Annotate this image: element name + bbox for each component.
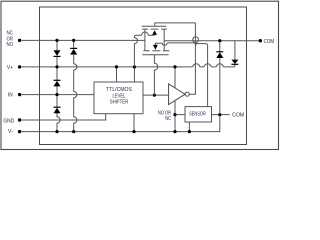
junction dot V+ / inverter supply	[173, 65, 176, 68]
right stub Q1 down to lower channel	[163, 29, 165, 50]
wire: V+ rail hop over sensor vertical x207.6	[204, 64, 211, 67]
wire col A: diode3 down, hop over GND, to V-	[57, 113, 60, 132]
junction dot shifter V- on V- rail	[132, 130, 135, 133]
wire: GND rail from pin, corner up into level shifter bottom	[22, 114, 106, 120]
wire: V- rail from pin, corner up at right to sensor-COM node	[22, 115, 220, 132]
junction dot col B on NO rail	[72, 39, 75, 42]
svg-text:IN: IN	[8, 93, 13, 99]
junction dot V+/shifter left supply	[115, 65, 118, 68]
junction dot sensor/COM/column C node	[218, 113, 221, 116]
wire col A: diode2 anode to IN rail	[56, 86, 58, 94]
junction dot sensor bottom on V- rail	[188, 130, 191, 133]
wire: V+ rail	[22, 66, 235, 68]
wire: N-gate vertical from lower MOSFET gate down to shifter output, hop over V+ rail	[154, 55, 157, 95]
pin dot IN	[18, 93, 21, 96]
inverter output bubble	[185, 92, 189, 96]
transistor Q2 lower MOSFET (N-channel)	[142, 43, 196, 55]
TTL/CMOS level shifter box U1	[94, 82, 143, 114]
op-amp U2 inverter body redrawn over supply line	[169, 84, 185, 105]
wire col A: IN to diode3	[56, 95, 58, 107]
pin dot GND	[18, 118, 21, 121]
svg-text:LEVEL: LEVEL	[113, 93, 126, 99]
column D: COM to V+ clamp diode at x234.9	[234, 41, 236, 67]
op-amp U2 inverter	[169, 84, 185, 105]
wire col C: diode anode down to sensor node (V+ rail hops over)	[219, 58, 221, 115]
crossover circle at COM rail / drive vertical	[193, 37, 199, 43]
diode D6 col D (anode COM, cathode V+)	[231, 60, 238, 64]
wire: V+ rail hop over gate vertical x196.3	[193, 64, 200, 67]
wire: COM rail from right stub T to COM pin	[164, 40, 259, 42]
junction dot col A on IN rail	[55, 93, 58, 96]
channel segments Q2	[143, 50, 169, 52]
gate bar Q1	[142, 25, 167, 27]
diode D2 col A (cathode V+, anode IN)	[54, 79, 61, 81]
wire col D: COM rail down to diode anode	[234, 41, 236, 60]
column A: ESD diode stack at x57	[57, 40, 60, 131]
wire: level shifter output to inverter input	[143, 94, 169, 96]
wire: V- supply from level shifter bottom to V- rail	[133, 114, 135, 132]
substrate wire Q2: from arrow base up, right, dip under right stub, to gate vertical	[155, 43, 196, 46]
pin dot COM (top right)	[259, 39, 262, 42]
wire col D: diode cathode to V+ rail end	[234, 65, 236, 67]
substrate wire hop over left stub	[142, 32, 148, 35]
IC boundary box	[40, 7, 247, 145]
wire: branch to sensor: right at y43.6 then down to sensor top	[195, 44, 207, 107]
svg-text:GND: GND	[3, 118, 14, 124]
svg-text:NC: NC	[165, 116, 171, 122]
wire: V+ rail hop over column C x219.8	[216, 64, 223, 67]
junction dot col A on NO rail	[55, 39, 58, 42]
svg-text:COM: COM	[264, 39, 275, 45]
wire col A: V+ to diode2 top	[56, 67, 58, 80]
wire: sensor left to inverter supply node	[175, 114, 185, 116]
junction dot shifter output	[153, 94, 156, 97]
svg-text:SHIFTER: SHIFTER	[110, 100, 128, 106]
junction dot col C on COM rail	[218, 39, 221, 42]
pin dot V+	[18, 65, 21, 68]
wire col B: diode anode down, hops over V+, IN, GND, to V-	[74, 55, 77, 132]
junction dot col A on V+ rail	[55, 65, 58, 68]
svg-text:V+: V+	[7, 65, 13, 71]
svg-text:COM: COM	[232, 113, 244, 119]
outer page border	[1, 1, 279, 149]
junction dot col A on V- rail	[55, 130, 58, 133]
substrate arrow Q2 (apex down)	[153, 45, 158, 50]
substrate wire Q1: from arrow base left, hop over left stub, corner down to V+	[134, 35, 154, 67]
pin dot V-	[18, 130, 21, 133]
svg-text:SENSOR: SENSOR	[189, 112, 206, 118]
svg-text:TTL/CMOS: TTL/CMOS	[106, 87, 132, 93]
diode D4 col B (cathode NO, anode V-)	[70, 47, 77, 49]
channel segments Q1	[142, 28, 167, 30]
wire: V+ supply to level shifter (right)	[133, 67, 135, 82]
wire: sensor right to COM stub	[212, 114, 230, 116]
pin dot NC/OR/NO	[18, 39, 21, 42]
diode D3 col A (cathode IN side, anode V-)	[54, 106, 61, 108]
junction dot V+/shifter right supply + substrate node	[133, 65, 136, 68]
wire: V+ supply to level shifter (left)	[116, 67, 118, 82]
diode D5 col C (cathode COM, anode V-)	[216, 51, 223, 53]
wire col C: COM rail down to diode	[219, 41, 221, 52]
diode D1 col A (anode NO, cathode V+)	[54, 50, 61, 56]
left stub Q1 down to NO rail node and through to lower channel	[144, 29, 146, 50]
wire substrate arrow stem Q1	[154, 34, 156, 37]
wire col A: diode1 to V+ rail	[56, 57, 58, 67]
junction dot col B on V- rail	[72, 130, 75, 133]
gate bar Q2	[142, 54, 169, 56]
svg-text:NO: NO	[7, 42, 14, 48]
svg-text:V-: V-	[8, 129, 13, 135]
substrate arrow Q1 (apex up)	[152, 30, 157, 35]
wire: inverter drive vertical x195.5 from gate wire down to inverter output	[190, 23, 208, 107]
wire: NO rail from pin to switch	[22, 39, 146, 41]
wire: sensor bottom to V- rail	[188, 122, 190, 132]
column B: ESD diode at x73.7	[74, 40, 77, 131]
SENSOR box U3	[185, 107, 212, 122]
junction dot inverter V- on V- rail	[173, 130, 176, 133]
transistor Q1 upper MOSFET (P-channel)	[134, 23, 195, 67]
column C: COM clamp diode at x219.8	[219, 41, 221, 115]
wire col B: NO rail to diode cathode	[73, 40, 75, 48]
wire: inverter supply rail V+ to V- vertical x175 (passes behind inverter)	[174, 67, 176, 132]
gate wire Q1 up and right to x195.4	[155, 23, 196, 26]
wire col A: NO rail to diode1	[56, 40, 58, 50]
junction dot inverter V- / sensor left node	[173, 113, 176, 116]
wire: IN rail from pin to level shifter	[22, 94, 95, 96]
